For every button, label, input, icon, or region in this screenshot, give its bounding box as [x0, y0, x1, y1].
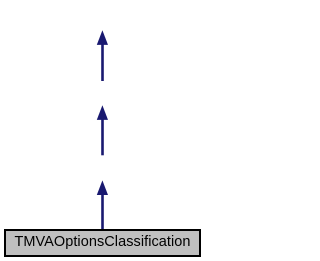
node TMVAOptionsClassification	[4, 229, 201, 257]
inheritance arrow 1 (top) head	[97, 30, 108, 45]
inheritance arrow 2 (middle) head	[97, 105, 108, 120]
inheritance arrow 3 (bottom) head	[97, 180, 108, 195]
wire inheritance arrow 2 (middle) shaft	[101, 119, 104, 156]
wire inheritance arrow 3 (bottom) shaft	[101, 194, 104, 231]
wire inheritance arrow 1 (top) shaft	[101, 44, 104, 82]
